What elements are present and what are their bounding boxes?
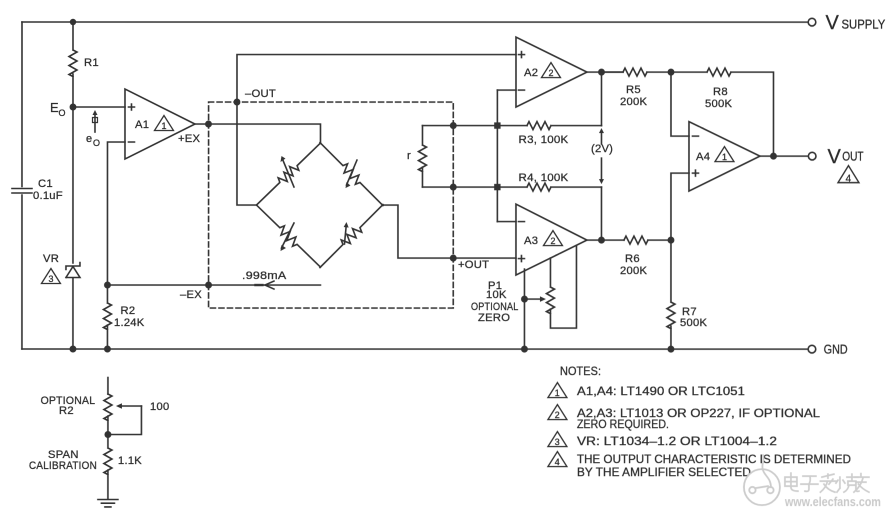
notes list triangle 3 (548, 432, 567, 447)
node EO (70, 104, 77, 111)
node P1 wiper (521, 296, 528, 303)
resistor R5 (601, 68, 671, 76)
dashed bridge box (209, 102, 454, 308)
op-amp A1 (125, 89, 195, 159)
wire bridge right to +OUT (382, 205, 453, 258)
node A2 out (598, 69, 605, 76)
resistor R7 (667, 240, 675, 349)
wire r bottom (422, 186, 497, 188)
wire P1 wiper leg (523, 269, 525, 348)
note triangle A3 (543, 231, 562, 246)
svg-text:500K: 500K (705, 98, 732, 110)
wire EO down to VR (72, 107, 74, 263)
svg-text:VR: LT1034–1.2 OR LT1004–1.2: VR: LT1034–1.2 OR LT1004–1.2 (577, 434, 777, 448)
wire A2- A3- vertical (496, 90, 498, 222)
node R5 R8 junction (668, 69, 675, 76)
svg-text:R4, 100K: R4, 100K (518, 172, 568, 184)
gauge arrow BR (344, 222, 349, 244)
wire A4 non-inverting (671, 173, 689, 240)
wire A3 inverting (497, 221, 516, 223)
svg-text:200K: 200K (620, 265, 647, 277)
svg-text:VR: VR (43, 253, 59, 265)
svg-text:4: 4 (555, 457, 560, 467)
wire -OUT down to bridge left (237, 102, 257, 205)
gauge arrow TR (345, 160, 357, 188)
note triangle A4 (715, 147, 734, 162)
resistor R6 (624, 236, 671, 244)
svg-text:R1: R1 (84, 57, 99, 69)
resistor R4 (497, 183, 601, 191)
terminal GND (808, 345, 816, 353)
svg-text:+OUT: +OUT (458, 259, 489, 271)
current arrow .998mA (255, 281, 274, 289)
svg-text:SUPPLY: SUPPLY (841, 18, 885, 32)
svg-text:www.elecfans.com: www.elecfans.com (784, 495, 881, 509)
notes list triangle 2 (548, 405, 567, 420)
potentiometer P1 (546, 246, 576, 329)
resistor r (418, 126, 426, 188)
wire A2 out down to R3 (600, 72, 602, 126)
wire +OUT to A3 + (453, 257, 516, 259)
svg-text:A4: A4 (696, 151, 710, 163)
wire A4 output (760, 155, 808, 157)
gauge arrow BL (280, 223, 294, 251)
arrow optional R2 wiper (116, 403, 142, 409)
svg-text:–EX: –EX (180, 289, 202, 301)
zener VR (66, 263, 80, 350)
svg-text:+EX: +EX (178, 133, 201, 145)
svg-text:NOTES:: NOTES: (560, 364, 601, 378)
svg-text:R8: R8 (713, 86, 728, 98)
svg-text:10K: 10K (486, 289, 507, 301)
wire A1 inverting feedback (107, 142, 125, 285)
wire -EX (107, 284, 320, 286)
note triangle VOUT (838, 166, 859, 183)
svg-text:V: V (827, 146, 841, 168)
op-amp A4 (689, 122, 760, 192)
node junction top rail (70, 19, 76, 25)
svg-text:4: 4 (846, 174, 852, 185)
potentiometer optional R2 (104, 394, 112, 435)
bridge leg bottom-right with strain gauge (317, 201, 386, 270)
resistor R3 (497, 122, 601, 130)
svg-text:V: V (825, 12, 839, 34)
svg-text:1.1K: 1.1K (118, 455, 142, 467)
arrow eO source (92, 110, 97, 132)
note triangle VR (41, 269, 60, 284)
wire EO to A1 + (73, 106, 125, 108)
resistor R8 (671, 68, 774, 156)
svg-text:GND: GND (824, 342, 848, 356)
svg-text:R6: R6 (625, 253, 640, 265)
bridge leg top-right with strain gauge (317, 139, 386, 208)
svg-text:0.1uF: 0.1uF (33, 190, 63, 202)
svg-text:1.24K: 1.24K (114, 317, 145, 329)
node VR gnd (69, 346, 76, 353)
notes list triangle 1 (548, 383, 567, 398)
svg-text:A3: A3 (524, 235, 538, 247)
watermark text (784, 473, 881, 509)
svg-text:C1: C1 (38, 178, 53, 190)
svg-text:1: 1 (555, 388, 560, 398)
node r bottom box edge (450, 184, 457, 191)
arrow P1 wiper (524, 296, 546, 302)
node A1 out (205, 121, 212, 128)
svg-text:e: e (86, 133, 92, 145)
svg-text:2: 2 (555, 410, 560, 420)
wire A3 output (587, 239, 624, 241)
svg-text:O: O (93, 138, 100, 148)
wire A2 output (587, 71, 623, 73)
svg-text:THE OUTPUT CHARACTERISTIC IS D: THE OUTPUT CHARACTERISTIC IS DETERMINED (577, 452, 851, 466)
note triangle A2 (541, 63, 560, 78)
capacitor C1 (12, 189, 32, 194)
wire A2 inverting (497, 89, 516, 91)
terminal V OUT (808, 152, 816, 160)
wire A1 output (195, 124, 321, 144)
node wiper join (104, 431, 111, 438)
terminal V SUPPLY (808, 18, 816, 26)
svg-text:A1,A4: LT1490 OR LTC1051: A1,A4: LT1490 OR LTC1051 (577, 384, 745, 398)
svg-text:R5: R5 (626, 84, 641, 96)
svg-text:A1: A1 (135, 119, 149, 131)
svg-text:ZERO REQUIRED.: ZERO REQUIRED. (577, 417, 669, 431)
bridge leg bottom-left with strain gauge (253, 202, 323, 270)
wire A4 inverting (671, 72, 689, 136)
node P1 gnd (521, 346, 528, 353)
node A4 out feedback (770, 153, 777, 160)
gauge arrow TL (280, 156, 294, 187)
node r top box edge (450, 122, 457, 129)
svg-text:2: 2 (550, 236, 555, 246)
svg-text:CALIBRATION: CALIBRATION (29, 460, 97, 472)
annotation (2V) arrows (599, 128, 604, 184)
watermark logo circle (744, 455, 780, 505)
resistor span calibration 1.1K (104, 435, 112, 500)
node R7 gnd (667, 346, 674, 353)
svg-text:R2: R2 (59, 405, 74, 417)
note triangle A1 (154, 116, 173, 131)
wire left vertical rail (21, 22, 23, 349)
node R6 R7 junction (668, 237, 675, 244)
svg-text:200K: 200K (620, 96, 647, 108)
node -OUT (234, 99, 241, 106)
node A3 out (598, 237, 605, 244)
svg-text:A2: A2 (524, 67, 538, 79)
node R2 top (104, 282, 111, 289)
svg-text:100: 100 (150, 401, 169, 413)
wire wiper loop (108, 406, 142, 435)
svg-text:3: 3 (48, 274, 53, 284)
bridge leg top-left with strain gauge (253, 140, 323, 208)
svg-text:ZERO: ZERO (478, 312, 510, 324)
svg-text:500K: 500K (680, 317, 707, 329)
resistor R2 (103, 285, 111, 349)
svg-text:–OUT: –OUT (245, 88, 276, 100)
svg-text:.998mA: .998mA (242, 270, 287, 282)
svg-text:3: 3 (555, 437, 560, 447)
svg-text:O: O (58, 108, 65, 118)
svg-text:1: 1 (722, 152, 727, 162)
wire -OUT up to A2 + (237, 55, 516, 103)
wire R4 down to A3 out (600, 187, 602, 240)
svg-text:OUT: OUT (842, 149, 864, 163)
op-amp A2 (516, 37, 587, 107)
svg-text:R3, 100K: R3, 100K (518, 134, 568, 146)
wire GND rail (22, 348, 808, 350)
resistor R1 (69, 22, 77, 107)
svg-text:R2: R2 (120, 305, 135, 317)
node R3 left (494, 122, 500, 128)
wire r top (422, 125, 497, 127)
node R4 left (494, 184, 500, 190)
wire span network stub (107, 378, 109, 395)
op-amp A3 (516, 204, 587, 275)
svg-text:BY THE AMPLIFIER SELECTED: BY THE AMPLIFIER SELECTED (577, 465, 751, 479)
node +OUT (450, 255, 457, 262)
ground symbol (98, 500, 118, 507)
svg-text:2: 2 (548, 68, 553, 78)
svg-text:(2V): (2V) (591, 143, 613, 155)
notes list triangle 4 (548, 452, 567, 467)
svg-text:1: 1 (161, 121, 166, 131)
svg-text:r: r (407, 150, 411, 162)
node R2 gnd (104, 346, 111, 353)
wire V supply rail (22, 21, 808, 23)
node -EX box edge (205, 282, 212, 289)
